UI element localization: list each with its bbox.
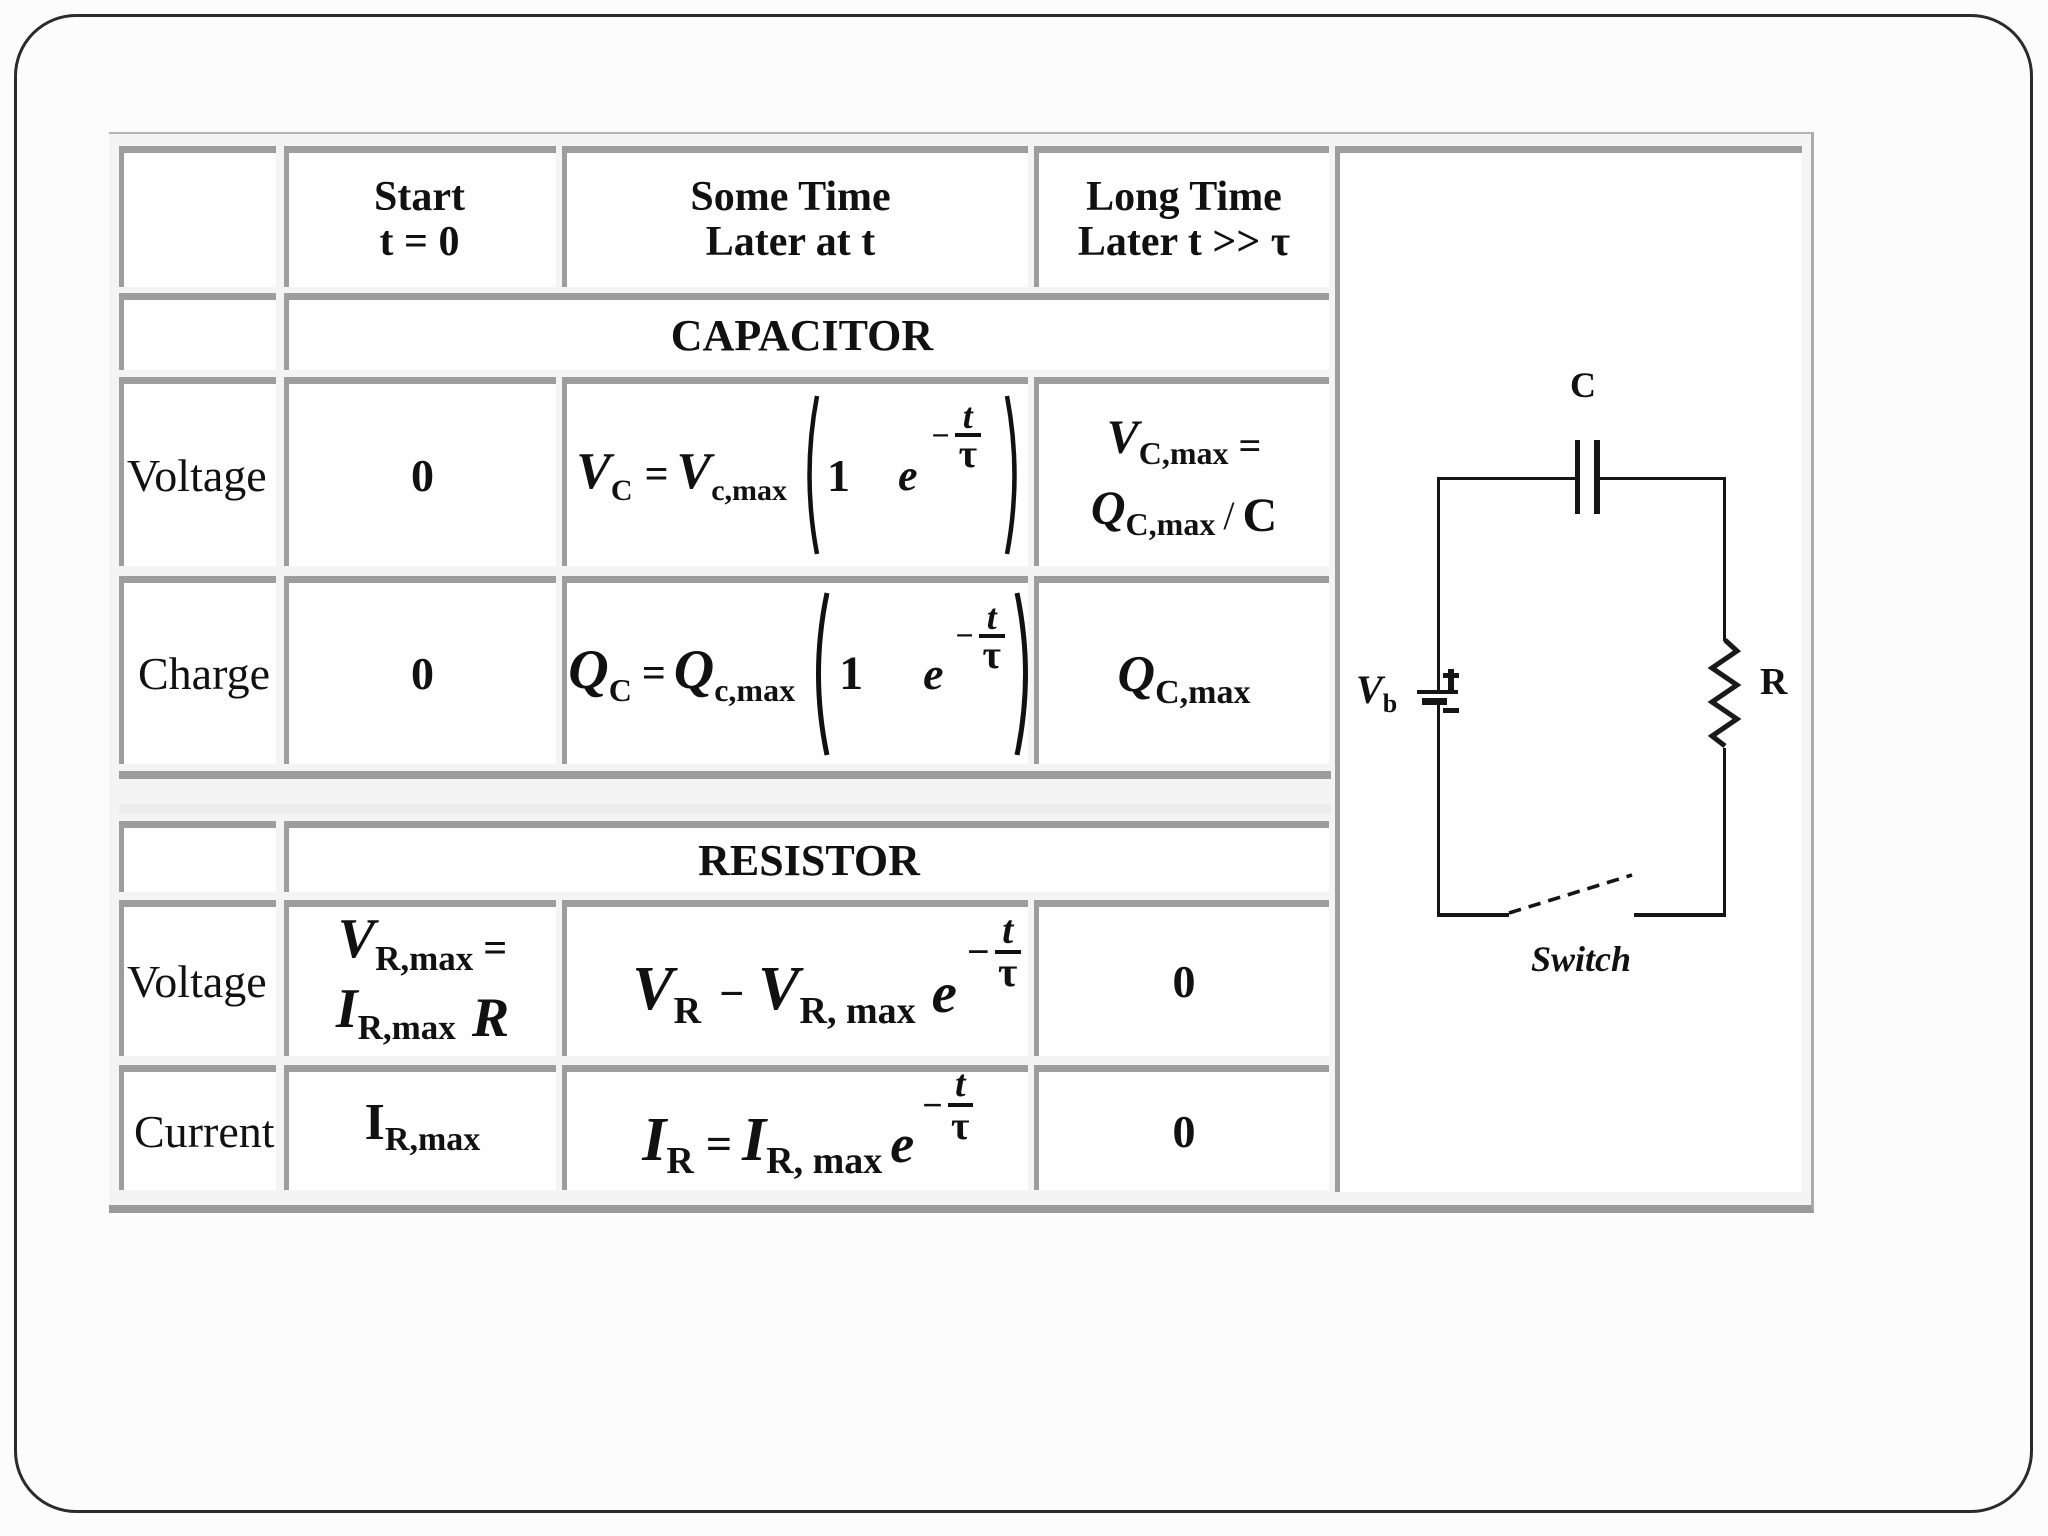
battery plus mark (1448, 669, 1454, 690)
row5 col1 VRmax = IRmax R (284, 900, 556, 1056)
row5 col3 zero (1034, 900, 1329, 1056)
separator light strip (119, 804, 1331, 814)
row0 col0 empty cell (119, 146, 276, 287)
row5 col0 Voltage (119, 900, 276, 1056)
wire right lower (1723, 748, 1726, 916)
R label (1760, 660, 1787, 704)
row0 col2 header Some Time Later at t (562, 146, 1028, 287)
row3 col3 Qcmax (1034, 576, 1329, 764)
row2 col2 formula Vc (562, 377, 1028, 566)
row2 col0 Voltage (119, 377, 276, 566)
capacitor C label (1570, 364, 1596, 406)
row4 col0 empty (119, 821, 276, 892)
circuit cell (1335, 146, 1802, 1192)
separator bar (119, 771, 1331, 779)
row6 col3 zero (1034, 1065, 1329, 1190)
row2 col1 zero (284, 377, 556, 566)
row0 col1 header Start t=0 (284, 146, 556, 287)
table block background (109, 132, 1814, 1213)
battery Vb long plate (1417, 690, 1458, 694)
capacitor C left plate (1575, 440, 1580, 514)
wire bottom right segment (1634, 913, 1726, 917)
row6 col0 Current (119, 1065, 276, 1190)
row5 col2 formula VR (562, 900, 1028, 1056)
row3 col2 formula Qc (562, 576, 1028, 764)
row3 col0 Charge (119, 576, 276, 764)
Vb label (1356, 666, 1397, 719)
row1 CAPACITOR header (284, 293, 1329, 370)
row4 RESISTOR header (284, 821, 1329, 892)
switch blade dashed (1505, 868, 1637, 918)
row2 col3 Vcmax = Qcmax/C (1034, 377, 1329, 566)
wire left lower (1437, 705, 1440, 916)
wire left upper (1437, 477, 1440, 692)
wire bottom left segment (1437, 913, 1509, 917)
wire top left segment (1437, 477, 1576, 480)
capacitor C right plate (1594, 440, 1600, 514)
battery Vb short plate (1422, 698, 1447, 705)
wire top right segment (1599, 477, 1726, 480)
switch label (1531, 938, 1631, 980)
wire right upper (1723, 477, 1726, 641)
row6 col2 formula IR (562, 1065, 1028, 1190)
row3 col1 zero (284, 576, 556, 764)
row1 col0 empty (119, 293, 276, 370)
resistor R zigzag (1706, 638, 1744, 749)
row6 col1 IRmax (284, 1065, 556, 1190)
battery minus mark (1443, 708, 1459, 713)
row0 col3 header Long Time Later (1034, 146, 1329, 287)
